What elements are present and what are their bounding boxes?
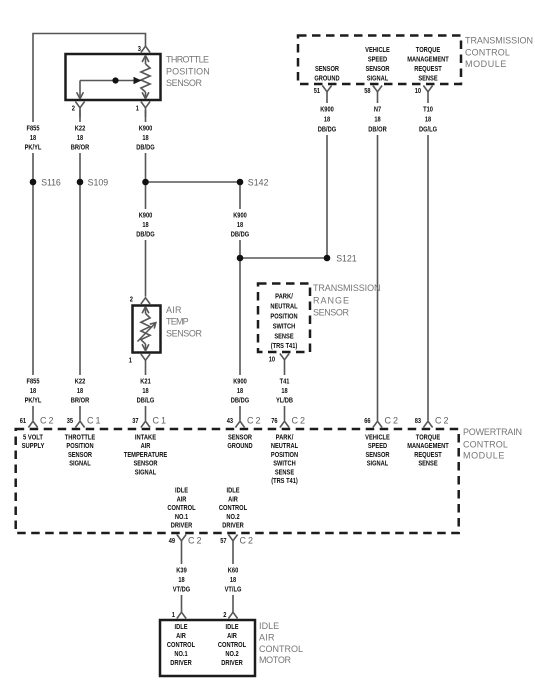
PCM pin 57 connector [228,535,237,541]
svg-text:NO.2: NO.2 [226,512,239,521]
junction node K900 at S121 rail [237,255,244,262]
wire label K39 18 VT/DG [168,564,196,595]
svg-text:18: 18 [237,220,243,229]
wire F855 from splice S116 to PCM pin 61 [32,182,34,421]
TPS wiper arm arrow [80,77,142,85]
svg-text:18: 18 [77,133,83,142]
svg-text:2: 2 [72,104,75,113]
TRS park/neutral position switch sense pin text [270,292,298,351]
TCM pin 58 connector [373,86,382,92]
PCM sensor ground pin text [227,433,253,451]
svg-text:CONTROL: CONTROL [167,503,196,512]
svg-text:SENSOR: SENSOR [313,308,350,318]
svg-text:37: 37 [132,416,138,425]
transmission control module box [298,36,461,85]
air temp sensor pin 2 connector [141,298,150,304]
svg-text:3: 3 [138,44,141,53]
svg-text:2: 2 [223,610,226,619]
svg-text:S121: S121 [336,254,357,264]
svg-text:RANGE: RANGE [313,295,349,305]
PCM park/neutral position switch sense pin text [271,433,299,486]
svg-text:83: 83 [415,416,421,425]
svg-text:TEMPERATURE: TEMPERATURE [124,450,167,459]
svg-text:5 VOLT: 5 VOLT [23,433,43,442]
TPS pin 3 connector [141,46,150,52]
svg-text:SENSE: SENSE [274,332,293,341]
PCM pin 43 connector [235,421,244,427]
svg-text:F855: F855 [27,124,40,133]
svg-text:YL/DB: YL/DB [276,396,294,405]
svg-text:SUPPLY: SUPPLY [22,441,45,450]
svg-text:TRANSMISSION: TRANSMISSION [313,283,381,293]
svg-text:PARK/: PARK/ [276,433,294,442]
svg-text:AIR: AIR [177,494,187,503]
svg-text:K900: K900 [139,211,153,220]
PCM 5 volt supply pin text [22,433,45,451]
wire label K900 18 DB/DG (S142 to junction) [226,209,254,240]
TPS potentiometer resistive element [141,56,150,99]
svg-text:AIR: AIR [259,632,275,642]
TRS pin 10 connector [280,354,289,360]
svg-text:SENSOR: SENSOR [365,450,390,459]
svg-text:DB/LG: DB/LG [137,396,155,405]
svg-text:IDLE: IDLE [259,621,279,631]
svg-text:10: 10 [415,86,421,95]
svg-text:35: 35 [67,416,73,425]
TCM pin 10 connector [423,86,432,92]
PCM pin 66 connector [373,421,382,427]
svg-text:18: 18 [30,133,36,142]
svg-text:MANAGEMENT: MANAGEMENT [407,54,449,63]
svg-text:AIR: AIR [166,305,182,315]
air temp sensor thermistor element [141,307,150,351]
svg-text:N7: N7 [374,105,381,114]
wire K22 from splice S109 to PCM pin 35 [79,182,81,421]
svg-text:1: 1 [136,104,139,113]
svg-text:VT/LG: VT/LG [225,585,242,594]
svg-text:DRIVER: DRIVER [221,658,243,667]
svg-text:18: 18 [178,575,184,584]
svg-text:NEUTRAL: NEUTRAL [270,302,298,311]
wire K900 junction to splice S142 [146,181,241,183]
air temp sensor variable arrow [138,323,156,342]
svg-text:VEHICLE: VEHICLE [365,433,390,442]
PCM pin 37 connector [141,421,150,427]
svg-text:MODULE: MODULE [463,451,504,461]
svg-text:MANAGEMENT: MANAGEMENT [407,441,449,450]
svg-text:18: 18 [142,386,148,395]
splice S109 [77,178,108,188]
IAC motor no.2 driver text [218,622,247,667]
TCM torque management request sense pin text [407,45,449,83]
wire label K22 18 BR/OR (upper) [66,122,94,153]
wire K900 from S142 down to junction at S121 rail [239,182,241,258]
svg-text:PK/YL: PK/YL [25,396,42,405]
svg-text:76: 76 [271,416,277,425]
svg-text:K22: K22 [75,124,86,133]
svg-text:IDLE: IDLE [175,486,188,495]
svg-text:SWITCH: SWITCH [273,322,296,331]
wire K900 from TPS pin 1 to junction [145,110,147,182]
svg-text:PK/YL: PK/YL [25,143,42,152]
PCM throttle position sensor signal pin text [65,433,95,468]
svg-text:GROUND: GROUND [314,74,340,83]
air temp sensor pin 1 connector [141,354,150,360]
svg-text:THROTTLE: THROTTLE [166,55,209,65]
wire label T10 18 DG/LG (TCM pin 10) [414,103,442,135]
PCM torque management request sense pin text [407,433,449,468]
svg-text:AIR: AIR [176,631,186,640]
svg-text:2: 2 [130,295,133,304]
svg-text:1: 1 [172,610,175,619]
svg-text:DG/LG: DG/LG [419,125,437,134]
svg-text:18: 18 [425,115,431,124]
svg-text:AIR: AIR [227,631,237,640]
svg-text:MOTOR: MOTOR [259,655,292,665]
svg-text:DRIVER: DRIVER [170,658,192,667]
wire F855 5-volt supply loop to TPS pin 3 [33,34,146,183]
svg-text:K60: K60 [228,566,239,575]
PCM pin 35 connector [75,421,84,427]
svg-text:GROUND: GROUND [227,441,253,450]
idle air control motor box [160,620,255,676]
PCM intake air temperature sensor signal pin text [124,433,167,477]
svg-text:K22: K22 [75,377,86,386]
svg-text:PARK/: PARK/ [275,292,293,301]
wire K39 from PCM pin 49 to IAC motor pin 1 [181,541,183,612]
svg-text:INTAKE: INTAKE [135,433,156,442]
svg-text:NEUTRAL: NEUTRAL [271,441,299,450]
splice S121 [324,254,357,264]
label transmission range sensor [313,283,381,318]
svg-text:SENSE: SENSE [418,459,437,468]
svg-text:POWERTRAIN: POWERTRAIN [463,427,522,437]
wire label F855 18 PK/YL (lower) [19,375,47,406]
splice S142 [237,178,269,188]
svg-text:10: 10 [269,355,275,364]
svg-text:SENSOR: SENSOR [315,64,340,73]
svg-text:POSITION: POSITION [271,450,298,459]
svg-text:18: 18 [142,133,148,142]
PCM idle air control no.2 driver pin text [219,486,248,530]
svg-text:CONTROL: CONTROL [167,640,196,649]
label throttle position sensor [166,55,210,89]
wire label T41 18 YL/DB [271,375,299,406]
svg-text:18: 18 [77,386,83,395]
svg-text:DB/DG: DB/DG [231,396,250,405]
label air temp sensor [166,305,203,338]
IAC motor pin 1 connector [177,612,186,618]
svg-text:SIGNAL: SIGNAL [367,74,389,83]
junction node K900 at S142 rail [142,179,149,186]
svg-text:AIR: AIR [141,441,151,450]
svg-text:SENSOR: SENSOR [166,78,203,88]
transmission range sensor box [258,284,310,353]
wire label F855 18 PK/YL (upper) [19,122,47,153]
svg-text:51: 51 [314,86,320,95]
svg-text:REQUEST: REQUEST [414,450,442,459]
svg-text:SENSE: SENSE [418,74,437,83]
svg-text:DB/DG: DB/DG [318,125,337,134]
svg-text:AIR: AIR [228,494,238,503]
wire K900 junction to air temp sensor pin 2 [145,182,147,297]
wire K60 from PCM pin 57 to IAC motor pin 2 [232,541,234,612]
splice S116 [30,178,61,188]
svg-text:DRIVER: DRIVER [222,521,244,530]
wire label K21 18 DB/LG [132,375,160,406]
svg-text:18: 18 [281,386,287,395]
wire label K22 18 BR/OR (lower) [66,375,94,406]
wire label K900 18 DB/DG (TCM pin 51) [313,103,341,135]
air temp sensor box [133,306,161,353]
wire K21 from air temp sensor pin 1 to PCM pin 37 [145,360,147,420]
svg-text:POSITION: POSITION [66,441,93,450]
wire K900 from junction to PCM pin 43 [239,258,241,421]
svg-text:SENSOR: SENSOR [166,328,203,338]
svg-text:18: 18 [324,115,330,124]
svg-text:TRANSMISSION: TRANSMISSION [465,36,533,46]
wire K900 junction to splice S121 [240,257,327,259]
svg-text:61: 61 [20,416,26,425]
wire T10 from TCM pin 10 to PCM pin 83 [427,92,429,421]
PCM pin 76 connector [280,421,289,427]
svg-text:66: 66 [364,416,370,425]
svg-text:K900: K900 [320,105,334,114]
svg-text:SENSE: SENSE [275,467,294,476]
svg-text:VT/DG: VT/DG [173,585,191,594]
powertrain control module box [16,429,459,533]
svg-text:VEHICLE: VEHICLE [365,45,390,54]
svg-text:(TRS T41): (TRS T41) [271,476,298,485]
svg-text:K900: K900 [233,377,247,386]
svg-text:SPEED: SPEED [368,441,388,450]
wire label K900 18 DB/DG (to PCM pin 43) [226,375,254,406]
svg-text:SIGNAL: SIGNAL [135,467,157,476]
label powertrain control module [463,427,522,460]
svg-text:F855: F855 [27,377,40,386]
PCM pin 49 connector [177,535,186,541]
svg-text:18: 18 [30,386,36,395]
svg-text:K900: K900 [139,124,153,133]
svg-text:CONTROL: CONTROL [218,640,247,649]
svg-text:NO.1: NO.1 [174,649,187,658]
svg-text:REQUEST: REQUEST [414,64,442,73]
label idle air control motor [259,621,303,665]
svg-text:TEMP: TEMP [166,317,189,327]
svg-text:49: 49 [169,536,175,545]
svg-text:57: 57 [220,536,226,545]
svg-text:CONTROL: CONTROL [463,439,508,449]
svg-text:S116: S116 [41,178,61,188]
svg-text:K21: K21 [140,377,151,386]
PCM idle air control no.1 driver pin text [167,486,196,530]
TPS pin 1 connector [141,102,150,118]
svg-text:CONTROL: CONTROL [219,503,248,512]
svg-text:DRIVER: DRIVER [171,521,193,530]
wire label K60 18 VT/LG [219,564,247,595]
svg-text:1: 1 [129,356,132,365]
svg-text:SWITCH: SWITCH [273,459,296,468]
svg-text:NO.2: NO.2 [225,649,238,658]
PCM pin 61 connector [28,421,37,427]
svg-text:SIGNAL: SIGNAL [367,459,389,468]
svg-text:K900: K900 [233,211,247,220]
TCM vehicle speed sensor signal pin text [365,45,390,83]
throttle position sensor box [66,54,161,100]
svg-text:18: 18 [142,220,148,229]
svg-text:T41: T41 [280,377,290,386]
svg-text:NO.1: NO.1 [175,512,188,521]
svg-text:SENSOR: SENSOR [228,433,253,442]
svg-text:SENSOR: SENSOR [365,64,390,73]
TPS wiper to pin 2 lead [77,81,84,99]
TCM pin 51 connector [322,86,331,92]
svg-text:THROTTLE: THROTTLE [65,433,95,442]
svg-text:SENSOR: SENSOR [68,450,93,459]
svg-text:SPEED: SPEED [368,54,388,63]
svg-text:BR/OR: BR/OR [71,143,90,152]
wire label K900 18 DB/DG (upper, TPS pin 1) [132,122,160,153]
IAC motor no.1 driver text [167,622,196,667]
svg-text:POSITION: POSITION [270,312,297,321]
wire N7 from TCM pin 58 to PCM pin 66 [377,92,379,421]
svg-text:TORQUE: TORQUE [416,45,440,54]
svg-text:CONTROL: CONTROL [259,644,303,654]
svg-text:18: 18 [237,386,243,395]
wire T41 from TRS pin 10 to PCM pin 76 [284,360,286,421]
svg-text:K39: K39 [176,566,187,575]
svg-text:CONTROL: CONTROL [465,47,510,57]
svg-text:S142: S142 [248,178,269,188]
svg-text:TORQUE: TORQUE [416,433,440,442]
PCM pin 83 connector [423,421,432,427]
wire label K900 18 DB/DG (to air temp sensor) [132,209,160,240]
svg-text:DB/DG: DB/DG [231,230,250,239]
svg-text:MODULE: MODULE [465,59,506,69]
TPS pin 2 connector [75,102,84,118]
TCM sensor ground pin text [314,64,340,83]
svg-text:DB/DG: DB/DG [136,230,155,239]
IAC motor pin 2 connector [228,612,237,618]
svg-text:S109: S109 [88,178,109,188]
svg-text:58: 58 [364,86,370,95]
svg-text:(TRS T41): (TRS T41) [271,341,298,350]
svg-text:DB/DG: DB/DG [136,143,155,152]
svg-text:IDLE: IDLE [175,622,188,631]
svg-text:SIGNAL: SIGNAL [69,459,91,468]
svg-text:18: 18 [230,575,236,584]
svg-text:18: 18 [374,115,380,124]
wire K22 from TPS pin 2 to splice S109 [79,110,81,182]
label transmission control module [465,36,533,69]
PCM vehicle speed sensor signal pin text [365,433,390,468]
svg-text:IDLE: IDLE [226,622,239,631]
svg-text:43: 43 [227,416,233,425]
svg-text:POSITION: POSITION [166,66,210,76]
svg-text:BR/OR: BR/OR [71,396,90,405]
svg-text:SENSOR: SENSOR [133,459,158,468]
svg-text:IDLE: IDLE [227,486,240,495]
svg-text:DB/OR: DB/OR [368,125,387,134]
wire K900 from TCM pin 51 to splice S121 [326,92,328,258]
wire label N7 18 DB/OR (TCM pin 58) [364,103,392,135]
svg-text:T10: T10 [423,105,433,114]
